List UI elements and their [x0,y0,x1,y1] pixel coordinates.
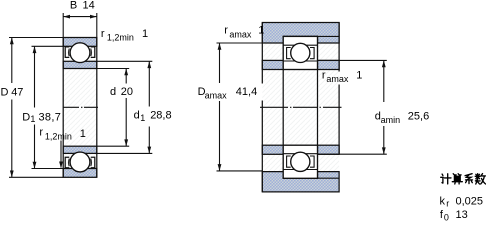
svg-text:amax: amax [205,91,228,101]
svg-text:r: r [39,127,43,139]
bore column left edge (right figure) [282,70,284,146]
char xi [465,174,472,184]
Damax extension line top [217,42,263,44]
svg-text:1,2min: 1,2min [107,32,134,42]
svg-text:r: r [224,24,228,36]
faint hatch background left figure [63,38,97,178]
svg-text:1: 1 [80,128,86,140]
D1 extension line bottom [32,168,64,170]
outer ring band line (bottom section) [283,169,317,171]
svg-text:41,4: 41,4 [236,86,257,98]
svg-text:1: 1 [140,113,145,123]
shield right (bottom section) [91,157,95,168]
svg-text:r: r [322,70,326,82]
shield right (right figure bottom) [310,156,314,167]
shield left (top section) [65,47,69,58]
d1 arrow bottom [147,147,151,154]
bore column left edge [62,69,64,147]
outer ring band line (top section) [283,44,317,46]
shield left (bottom section) [65,157,69,168]
svg-text:14: 14 [83,0,95,11]
d1 dimension line [148,61,150,153]
d dimension line [125,69,127,147]
bearing bottom section (right figure, white) [283,145,317,178]
inner ring band line (bottom section) [283,153,317,155]
axis centerline right figure [260,106,342,108]
D arrow top [10,38,14,45]
B dimension line [63,16,97,18]
svg-text:r: r [101,28,105,40]
B dimension extension lines [62,13,64,38]
bore column right edge [96,69,98,147]
shaft shoulder top-left (blue) [262,60,283,69]
svg-text:0,025: 0,025 [456,195,484,207]
D dimension line [11,38,13,178]
svg-text:amax: amax [229,29,252,39]
svg-text:r: r [446,199,449,209]
damin extension line top [318,59,387,61]
svg-text:D: D [1,86,9,98]
svg-text:d: d [110,86,116,98]
outer ring bottom (blue) [63,169,97,178]
B arrow right [90,15,97,19]
svg-text:B: B [70,0,77,11]
bore column right edge (right figure) [317,70,319,146]
D arrow bottom [10,171,14,178]
r leader arrow [59,162,63,169]
ball (right figure top) [291,43,310,62]
damin extension line bottom [318,153,387,155]
housing top block (blue) [262,23,339,44]
svg-text:25,6: 25,6 [408,110,429,122]
outer ring top (blue) [63,38,97,47]
svg-text:1: 1 [356,70,362,82]
damin arrow top [382,60,386,67]
D extension line bottom [9,176,63,178]
char suan [452,174,462,184]
Damax arrow bottom [218,164,222,171]
svg-text:28,8: 28,8 [150,109,171,121]
Damax extension line bottom [217,170,263,172]
svg-text:0: 0 [444,212,449,222]
char ji [441,174,451,184]
d arrow bottom [124,139,128,146]
bearing side faces top section [62,38,64,69]
D1 extension line top [32,45,64,47]
shield right (top section) [91,47,95,58]
heading (calculation factors) "计算系数" drawn as strokes [441,174,486,184]
d arrow top [124,69,128,76]
Damax dimension line [219,43,221,171]
faint hatch background right figure [262,23,339,192]
svg-text:1: 1 [258,24,264,36]
right wall line [338,23,340,155]
D1 arrow bottom [33,162,37,169]
svg-text:amin: amin [381,115,401,125]
svg-text:k: k [440,195,446,207]
svg-text:d: d [134,109,140,121]
inner ring bottom (blue) [63,146,97,153]
damin arrow bottom [382,147,386,154]
d1 extension line top [97,60,153,62]
svg-text:1: 1 [30,114,35,124]
D extension line top [9,37,63,39]
housing seam line bottom [318,177,340,179]
shaft top-right (blue) [318,60,340,69]
d1 extension line bottom [97,152,153,154]
d extension line top [97,68,129,70]
housing seam line top [318,35,340,37]
ball (right figure bottom) [291,152,310,171]
inner ring top (blue) [63,61,97,68]
shaft shoulder bottom-left (blue) [262,145,283,154]
svg-text:D: D [22,111,30,123]
housing bottom block (blue) [262,172,339,192]
ball top section [70,43,90,63]
shaft bottom-right (blue) [318,145,340,154]
Damax arrow top [218,43,222,50]
washer face line [261,23,263,192]
D1 arrow top [33,46,37,53]
damin dimension line [383,60,385,154]
axis centerline left figure [63,106,98,108]
ball bottom section [70,152,90,172]
bearing top section (right figure, white) [283,36,317,69]
svg-text:13: 13 [456,209,468,221]
svg-text:20: 20 [121,86,133,98]
svg-text:1: 1 [142,28,148,40]
D1 dimension line [34,46,36,168]
r leader (bottom) [60,141,62,168]
shield right (right figure top) [310,48,314,59]
svg-text:1,2min: 1,2min [45,131,72,141]
d extension line bottom [97,145,129,147]
shield left (right figure bottom) [287,156,291,167]
d1 arrow top [147,61,151,68]
svg-text:38,7: 38,7 [39,111,62,123]
shield left (right figure top) [287,48,291,59]
B arrow left [63,15,70,19]
svg-text:47: 47 [11,86,23,98]
svg-text:amax: amax [326,74,349,84]
char shu [475,174,485,184]
inner ring band line (top section) [283,60,317,62]
bearing side faces bottom section [62,146,64,177]
